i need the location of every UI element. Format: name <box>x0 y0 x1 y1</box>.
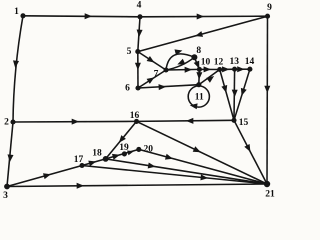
wire edge 14-15 <box>234 69 250 120</box>
arrow loop11 <box>190 103 198 109</box>
wire edge 6-11 <box>138 85 199 88</box>
arrow 6to11 <box>159 84 167 90</box>
node 14 <box>247 67 252 72</box>
wire edge 7-10 <box>166 68 199 71</box>
arrow 2to16 <box>72 119 79 125</box>
wire edge 17-21 <box>82 166 267 185</box>
svg-text:21: 21 <box>265 189 275 199</box>
arrow 11to12 <box>206 76 214 83</box>
svg-text:18: 18 <box>92 149 102 159</box>
arrow 18to21 <box>148 163 156 169</box>
arrow 2to3 <box>8 154 14 162</box>
wire edge 15-16 <box>137 120 235 121</box>
node 12 <box>217 67 222 72</box>
svg-text:7: 7 <box>154 70 159 80</box>
arrow 1to2 <box>13 60 19 68</box>
arrow 17to21 <box>200 174 208 180</box>
arrow 1to4 <box>85 13 93 19</box>
node 13 <box>232 67 237 72</box>
wire edge 11-12 <box>199 70 220 85</box>
node 15 <box>231 118 236 123</box>
arrow 14to15 <box>241 88 247 96</box>
wire edge 16-21 <box>137 121 268 184</box>
wire edge 6-7 <box>138 70 166 88</box>
arrow 20to21 <box>165 154 173 160</box>
wire edge 5-6 <box>137 52 139 88</box>
wire edge 5-7 <box>138 52 166 70</box>
arrow 13to15 <box>232 90 238 98</box>
svg-text:5: 5 <box>127 47 132 57</box>
node 17 <box>79 163 84 168</box>
wire edge 18-21 <box>106 159 267 184</box>
wire edge 13-15 <box>233 69 236 120</box>
svg-text:3: 3 <box>3 191 8 201</box>
wire edge 7-8 arc <box>166 54 194 70</box>
node 8 <box>191 54 197 60</box>
svg-text:6: 6 <box>125 83 130 93</box>
node 5 <box>135 49 140 54</box>
arrow 3to21 <box>77 183 85 189</box>
wire edge 16-18 <box>106 121 137 158</box>
svg-text:11: 11 <box>195 93 204 103</box>
wire edge 9-5 <box>138 16 268 51</box>
wire edge 18-20 <box>106 149 139 159</box>
svg-text:15: 15 <box>239 118 249 128</box>
node 1 <box>20 13 25 18</box>
node 3 <box>4 184 10 190</box>
wire edge 9-21 <box>266 16 269 184</box>
node 16 <box>134 119 139 124</box>
wire edge 3-21 <box>7 184 267 187</box>
arrow 8to10 <box>194 61 200 69</box>
arrow 5to6 <box>135 63 141 70</box>
wire edge 10-12 <box>199 68 219 70</box>
wire edge 10-11 <box>198 69 201 84</box>
arrow 16to18 <box>119 135 126 143</box>
svg-text:10: 10 <box>201 57 211 67</box>
wire edge 8-7 arc <box>166 57 194 70</box>
node 7 <box>163 67 168 72</box>
arrow 13to14 <box>237 66 244 72</box>
svg-text:2: 2 <box>4 118 9 128</box>
svg-text:13: 13 <box>229 57 239 67</box>
svg-text:4: 4 <box>137 1 142 11</box>
node 20 <box>136 147 141 152</box>
svg-text:8: 8 <box>196 46 201 56</box>
node 10 <box>197 67 202 72</box>
arrow 5to7 <box>147 56 155 63</box>
svg-text:16: 16 <box>130 111 140 121</box>
arrow 7to10 <box>185 67 193 73</box>
node 19 <box>122 151 127 156</box>
arrow 17to18 <box>88 161 96 167</box>
svg-text:17: 17 <box>74 155 84 165</box>
svg-text:1: 1 <box>14 7 19 17</box>
node 2 <box>10 119 15 124</box>
wire edge 8-10 <box>194 57 199 69</box>
wire edge 2-16 <box>13 120 137 123</box>
wire edge 3-17 <box>7 166 82 187</box>
wire edge 1-2 <box>13 16 23 122</box>
wire edge 17-18 <box>82 159 106 166</box>
arrow 8to7 <box>177 59 185 65</box>
wire edge 13-14 <box>235 68 250 70</box>
arrow 19to20 <box>127 151 134 156</box>
svg-text:19: 19 <box>119 143 129 153</box>
arrow 3to17 <box>43 173 51 179</box>
arrow 12to15 <box>221 85 227 93</box>
node 21 <box>264 181 270 187</box>
arrow 9to21 <box>264 86 270 93</box>
wire edge 2-3 <box>7 122 13 187</box>
wire edge 4-5 <box>138 17 140 52</box>
svg-text:20: 20 <box>144 145 154 155</box>
wire edge 12-15 <box>220 70 234 121</box>
arrow 7to8 <box>175 49 183 55</box>
node 6 <box>135 85 140 90</box>
wire edge 1-4 <box>23 15 140 18</box>
node 9 <box>265 14 270 19</box>
node 18 <box>103 156 109 162</box>
node 11 <box>196 82 201 87</box>
arrow 15to16 <box>186 118 194 124</box>
arrow 15to21 <box>244 144 250 152</box>
arrow 4to9 <box>197 14 204 20</box>
arrow 4to5 <box>137 30 143 38</box>
arrow 10to12 <box>204 66 211 72</box>
arrow 6to7 <box>147 77 155 84</box>
wire edge 20-21 <box>139 149 267 184</box>
arrow 9to5 <box>195 31 203 37</box>
svg-text:12: 12 <box>214 57 224 67</box>
node 4 <box>137 14 142 19</box>
svg-text:9: 9 <box>267 3 272 13</box>
arrow 10to11 <box>196 72 202 80</box>
wire edge 4-9 <box>140 15 268 18</box>
arrow 16to21 <box>193 146 201 152</box>
arrow 18to20 <box>112 154 120 160</box>
arrow 12to13 <box>222 66 230 72</box>
svg-text:14: 14 <box>245 57 255 67</box>
wire edge 15-21 <box>234 120 267 184</box>
wire self-loop 11 <box>188 86 209 107</box>
wire edge 12-13 <box>220 68 235 70</box>
